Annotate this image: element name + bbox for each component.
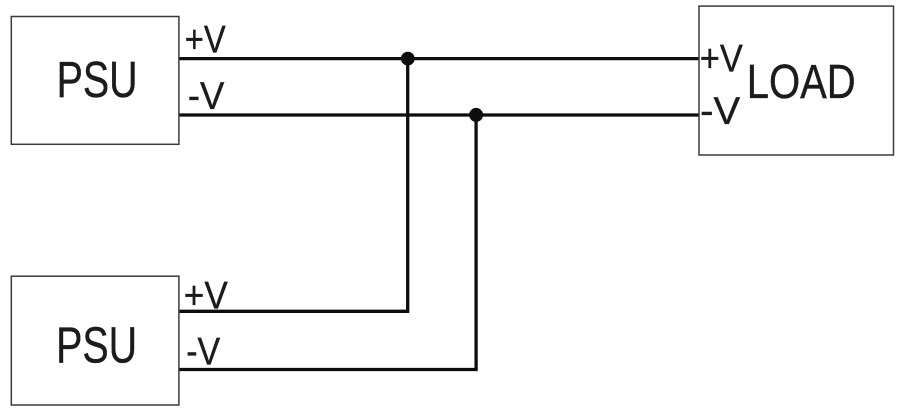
svg-text:-V: -V	[700, 90, 740, 133]
svg-text:-V: -V	[188, 75, 225, 118]
svg-text:+V: +V	[185, 19, 226, 62]
svg-text:PSU: PSU	[56, 317, 137, 374]
svg-text:LOAD: LOAD	[747, 56, 856, 109]
svg-text:+V: +V	[700, 37, 743, 80]
svg-text:-V: -V	[186, 330, 220, 373]
svg-text:PSU: PSU	[57, 51, 138, 108]
svg-text:+V: +V	[184, 275, 228, 318]
